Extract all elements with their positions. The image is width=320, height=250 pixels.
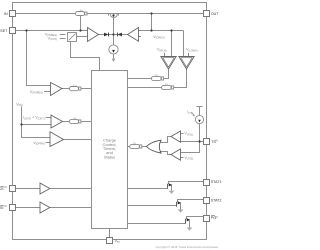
svg-text:V(TS2): V(TS2)	[185, 156, 194, 161]
svg-text:V(TMREG): V(TMREG)	[30, 90, 43, 95]
svg-text:(1): (1)	[215, 216, 218, 218]
svg-text:Copyright © 2016, Texas Instru: Copyright © 2016, Texas Instruments Inco…	[156, 245, 219, 249]
svg-text:(1): (1)	[4, 205, 7, 207]
svg-text:V(OUT): V(OUT)	[48, 37, 58, 42]
svg-text:V(IN): V(IN)	[16, 102, 23, 107]
svg-text:V(OREG): V(OREG)	[153, 35, 165, 40]
svg-text:OUT: OUT	[211, 12, 219, 16]
svg-text:(1): (1)	[215, 140, 218, 142]
svg-text:I(OUT) + V(OUT): I(OUT) + V(OUT)	[23, 116, 45, 121]
svg-text:ISET: ISET	[0, 29, 8, 33]
svg-text:(1): (1)	[4, 186, 7, 188]
svg-text:V(RCH): V(RCH)	[157, 48, 167, 53]
svg-text:V(DPPM): V(DPPM)	[33, 141, 44, 146]
svg-text:V(LOWV): V(LOWV)	[186, 48, 198, 53]
svg-text:V(TS1): V(TS1)	[185, 132, 194, 137]
svg-text:STAT2: STAT2	[211, 199, 222, 203]
svg-text:IN: IN	[4, 12, 8, 16]
svg-text:STAT1: STAT1	[211, 180, 222, 184]
svg-text:I(TS): I(TS)	[187, 110, 193, 115]
svg-text:Status: Status	[104, 154, 115, 159]
